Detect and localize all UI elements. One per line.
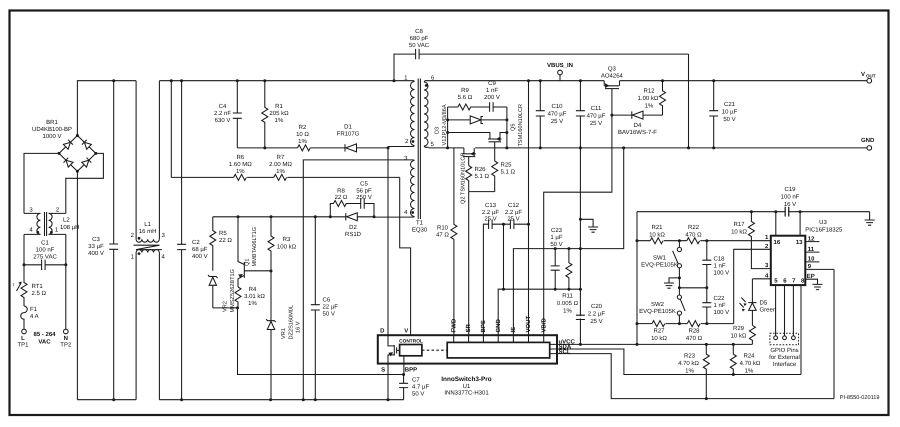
svg-text:25 V: 25 V [590, 318, 602, 325]
svg-text:GND: GND [495, 319, 502, 333]
wire T1 pin3 to primary return [303, 160, 414, 400]
wire L2 pin4 to C1 left [23, 234, 25, 264]
svg-text:U1: U1 [463, 383, 471, 390]
svg-text:50 VAC: 50 VAC [409, 42, 430, 49]
svg-text:SR: SR [465, 323, 472, 332]
resistor R25 [492, 161, 498, 192]
svg-text:1 nF: 1 nF [714, 302, 726, 309]
svg-text:EP: EP [807, 273, 815, 280]
input labels [17, 331, 71, 349]
transistor Q1 [238, 217, 271, 287]
resistor R1 [262, 81, 268, 148]
capacitor C4 [233, 81, 242, 148]
snubber R8 + C5 branch [330, 198, 374, 217]
svg-text:R5: R5 [219, 230, 227, 237]
svg-text:R25: R25 [501, 162, 513, 169]
ground VCC rail right [865, 212, 875, 226]
ground EP [813, 284, 823, 289]
R24 label [740, 353, 761, 375]
svg-text:100 V: 100 V [714, 270, 730, 277]
resistor R4 [235, 287, 241, 308]
resistor R5 [210, 217, 216, 271]
R8 label [335, 188, 348, 202]
svg-text:C10: C10 [551, 103, 563, 110]
svg-text:BAV16WS-7-F: BAV16WS-7-F [618, 129, 657, 136]
svg-text:1000 V: 1000 V [42, 133, 61, 140]
T1 label [412, 220, 428, 234]
svg-text:C4: C4 [219, 103, 227, 110]
C4 label [214, 103, 231, 124]
svg-text:DZ2S160M0L: DZ2S160M0L [289, 305, 295, 340]
svg-text:BPP: BPP [405, 367, 417, 374]
capacitor C1 [23, 260, 68, 270]
svg-text:22 Ω: 22 Ω [219, 237, 232, 244]
resistor R11 [566, 249, 572, 290]
svg-text:D: D [380, 328, 385, 335]
svg-text:47 Ω: 47 Ω [436, 232, 449, 239]
svg-text:13: 13 [796, 239, 803, 246]
svg-text:200 V: 200 V [484, 94, 500, 101]
resistor R27 [652, 321, 665, 327]
svg-text:SW1: SW1 [653, 255, 667, 262]
svg-text:250 V: 250 V [356, 194, 372, 201]
resistor R3 [268, 217, 274, 271]
resistor R28 [687, 321, 700, 327]
svg-text:SW2: SW2 [651, 301, 665, 308]
svg-text:108 µH: 108 µH [60, 224, 79, 231]
svg-text:R2: R2 [299, 124, 307, 131]
svg-text:50 V: 50 V [412, 391, 424, 398]
MOSFET Q2 [462, 148, 476, 166]
svg-text:C2: C2 [192, 239, 200, 246]
svg-text:F1: F1 [30, 306, 38, 313]
T1 pin labels [404, 75, 435, 217]
node Q3 gate dot [610, 114, 613, 117]
svg-text:InnoSwitch3-Pro: InnoSwitch3-Pro [441, 376, 492, 383]
VR1 label (rotated) [281, 305, 302, 340]
svg-text:INN3377C-H301: INN3377C-H301 [444, 390, 489, 397]
svg-text:2.2 nF: 2.2 nF [214, 110, 231, 117]
LED D5 [740, 279, 757, 326]
wire VOUT pin vertical [528, 81, 530, 336]
primary return line left [77, 399, 136, 401]
resistor R23 [703, 344, 709, 398]
svg-text:Q3: Q3 [608, 66, 617, 73]
svg-text:R28: R28 [688, 328, 700, 335]
uVCC SDA SCL labels [559, 338, 576, 355]
svg-text:PIC16F18325: PIC16F18325 [805, 227, 843, 234]
svg-text:4 A: 4 A [30, 313, 39, 320]
svg-text:470 µF: 470 µF [587, 113, 606, 120]
svg-text:205 kΩ: 205 kΩ [269, 110, 289, 117]
capacitor C9 [490, 102, 507, 112]
U1 inner block [447, 342, 550, 358]
ground SW1 [664, 276, 681, 288]
R3 label [277, 236, 297, 251]
svg-text:CONTROL: CONTROL [399, 339, 423, 345]
svg-text:R6: R6 [236, 154, 244, 161]
svg-text:C5: C5 [360, 181, 368, 188]
F1 label [30, 306, 39, 320]
svg-text:MMSZ5262BT1G: MMSZ5262BT1G [230, 269, 236, 313]
C2 label [192, 239, 208, 260]
gnd mid line [679, 287, 706, 289]
C22 label [714, 295, 730, 316]
VR2 label (rotated) [223, 269, 237, 313]
resistor R2 [298, 145, 311, 151]
U3 left pin labels [765, 234, 769, 279]
snubber right vertical [506, 107, 508, 148]
terminal GND [867, 146, 872, 151]
svg-text:L1: L1 [144, 221, 151, 228]
terminal TP2 [64, 329, 69, 334]
SW2 label [639, 301, 676, 315]
capacitor C6 [311, 217, 320, 400]
svg-text:C21: C21 [724, 101, 736, 108]
svg-text:470 µF: 470 µF [548, 111, 567, 118]
svg-text:BR1: BR1 [46, 119, 58, 126]
resistor R10 + FWD pin [451, 148, 457, 335]
svg-text:5.1 Ω: 5.1 Ω [501, 169, 516, 176]
wire R2 to D1 [310, 147, 345, 149]
wire VR2 bottom to R4 node [213, 307, 238, 309]
capacitor C7 [399, 375, 408, 400]
U3 labels [805, 219, 843, 234]
node GND rail / FWD line [429, 147, 868, 149]
resistor R21 [650, 238, 663, 244]
L1 pin labels [131, 232, 166, 261]
primary return line right [159, 399, 403, 401]
C8 label [409, 28, 430, 49]
MOSFET Q5 [448, 133, 507, 162]
svg-text:2.5 Ω: 2.5 Ω [32, 290, 47, 297]
svg-text:68 µF: 68 µF [192, 246, 208, 253]
svg-text:1%: 1% [745, 368, 754, 375]
R25 label [501, 162, 516, 176]
svg-text:PI-8550-020119: PI-8550-020119 [840, 395, 880, 401]
svg-text:100 nF: 100 nF [781, 194, 800, 201]
svg-text:EVQ-PE105K: EVQ-PE105K [639, 308, 676, 315]
R2 label [296, 124, 309, 145]
svg-text:2.2 µF: 2.2 µF [482, 209, 499, 216]
svg-text:EVQ-PE105K: EVQ-PE105K [641, 262, 678, 269]
svg-text:1%: 1% [236, 168, 245, 175]
svg-text:FWD: FWD [450, 318, 457, 332]
svg-text:10 kΩ: 10 kΩ [651, 335, 667, 342]
svg-text:Q5: Q5 [511, 124, 517, 131]
resistor R29 [749, 325, 755, 344]
svg-text:11: 11 [808, 246, 815, 253]
capacitors C13 C12 chain [483, 219, 530, 335]
svg-text:UD4KB100-BP: UD4KB100-BP [32, 126, 72, 133]
svg-text:56 pF: 56 pF [356, 188, 372, 195]
L2 label [60, 217, 79, 232]
svg-text:1%: 1% [563, 308, 572, 315]
svg-text:R27: R27 [653, 328, 665, 335]
svg-text:1 nF: 1 nF [486, 87, 498, 94]
svg-text:12: 12 [808, 235, 815, 242]
Q5 label (rotated) [511, 104, 525, 147]
svg-text:RS1D: RS1D [345, 231, 362, 238]
svg-text:C23: C23 [551, 227, 563, 234]
R9 label [458, 87, 473, 101]
svg-text:16 mH: 16 mH [139, 228, 157, 235]
svg-text:RT1: RT1 [32, 283, 44, 290]
IC U3 box [771, 236, 806, 285]
capacitor C10 [536, 81, 545, 148]
svg-text:D2: D2 [349, 224, 357, 231]
BR1 label [32, 119, 72, 140]
svg-text:T1: T1 [416, 220, 424, 227]
U1 name labels [441, 376, 492, 397]
svg-text:for External: for External [769, 354, 800, 361]
C19 label [781, 186, 800, 208]
svg-text:AO4264: AO4264 [601, 73, 624, 80]
svg-text:22 Ω: 22 Ω [335, 194, 348, 201]
svg-text:C18: C18 [714, 256, 726, 263]
wire T1 pin2 to D pin [387, 148, 389, 335]
U1 control box [400, 345, 422, 356]
SDA line [550, 349, 801, 375]
svg-text:400 V: 400 V [192, 253, 208, 260]
svg-text:TSM160N10LCR: TSM160N10LCR [518, 104, 524, 147]
svg-text:10 kΩ: 10 kΩ [731, 333, 747, 340]
svg-text:10 Ω: 10 Ω [296, 131, 309, 138]
wire rail to R6 feed [170, 81, 172, 178]
node drain dot [387, 146, 390, 149]
svg-text:25 V: 25 V [484, 216, 496, 223]
U3 inner pin numbers [774, 239, 806, 284]
svg-text:100 kΩ: 100 kΩ [277, 244, 297, 251]
D3 label (rotated) [435, 104, 449, 145]
wire IS pin + sense top line [513, 148, 623, 335]
C18 label [714, 256, 730, 277]
transformer T1 [374, 79, 429, 220]
svg-text:Interface: Interface [773, 361, 797, 368]
terminal VBUS_IN [558, 70, 563, 81]
svg-text:5.1 Ω: 5.1 Ω [475, 173, 490, 180]
svg-text:EQ30: EQ30 [412, 227, 428, 234]
svg-text:C20: C20 [591, 303, 603, 310]
zener VR2 [208, 275, 218, 308]
capacitor C20 (on 580 vertical) [576, 315, 585, 319]
svg-text:0.005 Ω: 0.005 Ω [557, 300, 579, 307]
clamp bottom wire [237, 147, 297, 149]
svg-text:VBUS_IN: VBUS_IN [547, 62, 573, 69]
svg-text:85 - 264: 85 - 264 [33, 331, 56, 338]
svg-text:C11: C11 [591, 105, 602, 112]
svg-text:D5: D5 [760, 300, 768, 307]
wire SR pin [468, 192, 470, 336]
R21 label [649, 224, 665, 239]
svg-text:R10: R10 [437, 225, 449, 232]
L1 label [139, 221, 157, 235]
svg-text:R12: R12 [643, 88, 655, 95]
svg-text:470 Ω: 470 Ω [685, 232, 702, 239]
svg-text:MMBTA06LT1G: MMBTA06LT1G [252, 227, 258, 267]
svg-text:C1: C1 [41, 240, 49, 247]
svg-text:R26: R26 [475, 166, 487, 173]
U1 top pin stubs [454, 335, 544, 342]
D2 label [345, 224, 362, 238]
SR gate bus [469, 191, 495, 193]
svg-text:10 kΩ: 10 kΩ [649, 232, 665, 239]
svg-text:V12P12-M3/86A: V12P12-M3/86A [441, 104, 448, 145]
R17 label [731, 221, 747, 236]
capacitor C22 [702, 288, 711, 324]
resistor R7 [274, 174, 287, 180]
svg-text:470 Ω: 470 Ω [686, 335, 703, 342]
node VCC rail [637, 211, 870, 213]
svg-text:C7: C7 [412, 377, 420, 384]
capacitor C8 [394, 49, 689, 148]
svg-text:1.00 kΩ: 1.00 kΩ [638, 95, 659, 102]
svg-text:630 V: 630 V [215, 117, 231, 124]
D5 label [760, 300, 777, 314]
svg-text:25 V: 25 V [551, 118, 563, 125]
terminal TP1 [22, 329, 27, 334]
svg-text:BPS: BPS [480, 320, 487, 332]
RT1 label [32, 283, 47, 297]
diode D1 [345, 144, 388, 152]
svg-text:R3: R3 [283, 236, 291, 243]
svg-text:10 kΩ: 10 kΩ [731, 229, 747, 236]
C23 label [550, 227, 563, 248]
svg-text:25 V: 25 V [590, 120, 602, 127]
wire V pin route [400, 177, 411, 335]
svg-text:R24: R24 [743, 353, 755, 360]
terminal VOUT [867, 78, 872, 83]
svg-text:R4: R4 [249, 286, 257, 293]
svg-text:VOUT: VOUT [525, 315, 532, 332]
R6 label [229, 154, 252, 175]
svg-text:1 µF: 1 µF [550, 234, 562, 241]
svg-text:33 µF: 33 µF [88, 243, 104, 250]
svg-text:3.01 kΩ: 3.01 kΩ [244, 293, 265, 300]
svg-text:R22: R22 [688, 224, 700, 231]
svg-text:16: 16 [774, 239, 781, 246]
svg-text:C3: C3 [92, 236, 100, 243]
VOUT label [861, 71, 876, 79]
svg-text:16 V: 16 V [296, 321, 302, 333]
ground tap secondary [580, 219, 598, 232]
wire pin8 to SDA [800, 285, 802, 374]
D4 label [618, 122, 657, 136]
U3 VDD/VSS risers [776, 212, 800, 236]
U3 right pin labels [807, 235, 815, 280]
node VBUS rail [429, 80, 868, 82]
svg-text:V: V [404, 328, 408, 335]
return dots [112, 398, 389, 401]
svg-text:TP2: TP2 [60, 342, 72, 349]
svg-text:400 V: 400 V [88, 250, 104, 257]
Q2 label (rotated) [461, 152, 467, 204]
C5 label [356, 181, 372, 202]
R12 label [638, 88, 659, 110]
svg-text:4.70 kΩ: 4.70 kΩ [678, 360, 699, 367]
snubber left vertical [447, 107, 449, 148]
svg-text:100 nF: 100 nF [36, 247, 55, 254]
svg-text:50 V: 50 V [323, 311, 335, 318]
diode D3 schottky [448, 116, 507, 124]
MOSFET Q3 [604, 81, 619, 115]
svg-text:D1: D1 [344, 124, 352, 131]
R10 label [436, 225, 449, 239]
svg-text:R7: R7 [277, 154, 285, 161]
svg-text:50 V: 50 V [550, 241, 562, 248]
SCL line [550, 354, 834, 399]
wire GND pin + line [498, 289, 580, 335]
wire bridge left to L2 pin3 [24, 153, 59, 213]
svg-text:TP1: TP1 [17, 342, 29, 349]
svg-text:GPIO Pins: GPIO Pins [770, 347, 798, 354]
wire bridge DC- down [76, 171, 78, 399]
Q1 label (rotated) [245, 227, 259, 267]
wire VCC riser [636, 212, 638, 345]
svg-text:2.2 µF: 2.2 µF [505, 209, 522, 216]
op-amp U1 box [378, 335, 557, 363]
svg-text:10 µF: 10 µF [722, 109, 738, 116]
C1 label [33, 240, 57, 261]
svg-text:S: S [381, 367, 385, 374]
svg-text:1%: 1% [275, 117, 284, 124]
svg-text:VAC: VAC [38, 339, 51, 346]
svg-text:VR2: VR2 [223, 301, 229, 312]
resistor R9 [448, 104, 490, 110]
svg-text:1 nF: 1 nF [714, 263, 726, 270]
svg-text:IS: IS [510, 327, 517, 333]
resistor R6 [234, 174, 247, 180]
zener VR1 [266, 271, 276, 400]
pin1 line [637, 240, 771, 242]
svg-text:FR107G: FR107G [337, 131, 360, 138]
svg-text:R1: R1 [275, 103, 283, 110]
wire R6R7 line [171, 176, 399, 178]
svg-text:C8: C8 [415, 28, 423, 35]
svg-text:275 VAC: 275 VAC [33, 254, 57, 261]
svg-text:L: L [21, 335, 25, 342]
capacitor C21 [709, 81, 718, 148]
R29 label [731, 325, 747, 340]
wire bridge right to L2 pin2 [66, 153, 104, 213]
svg-text:GND: GND [861, 137, 875, 144]
svg-text:R11: R11 [562, 293, 573, 300]
svg-text:4.70 kΩ: 4.70 kΩ [740, 360, 761, 367]
SW1 label [641, 255, 678, 269]
L2 pin labels [29, 207, 60, 234]
fuse F1 [21, 306, 28, 329]
C12 label [505, 202, 522, 223]
choke L1 [134, 81, 163, 400]
svg-text:R8: R8 [337, 188, 345, 195]
thermistor RT1 [13, 265, 27, 306]
svg-text:Q1: Q1 [245, 259, 251, 266]
wire gate to VB/D pin [544, 115, 612, 335]
svg-text:R21: R21 [651, 224, 663, 231]
wire BPP pin [403, 356, 405, 375]
junction dots top rails [112, 79, 395, 82]
wire pin4 to D5 [752, 278, 770, 280]
svg-text:L2: L2 [63, 217, 70, 224]
svg-text:2.00 MΩ: 2.00 MΩ [269, 161, 292, 168]
C20 label [588, 303, 605, 325]
capacitor C19 [785, 207, 789, 217]
svg-text:680 pF: 680 pF [410, 35, 429, 42]
svg-text:5.6 Ω: 5.6 Ω [458, 94, 473, 101]
svg-text:C13: C13 [485, 202, 497, 209]
svg-text:1.60 MΩ: 1.60 MΩ [229, 161, 252, 168]
dashed link [422, 349, 447, 351]
